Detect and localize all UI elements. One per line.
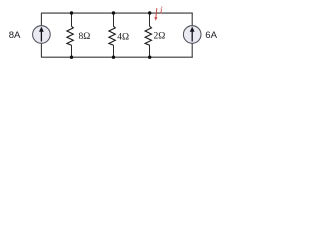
svg-text:8A: 8A (9, 30, 21, 41)
svg-text:4Ω: 4Ω (117, 32, 129, 42)
svg-text:i: i (160, 6, 163, 17)
wire top (41, 12, 193, 14)
svg-text:6A: 6A (205, 30, 217, 41)
resistor 4ohm (109, 13, 115, 57)
resistor 2ohm (145, 13, 151, 57)
svg-text:2Ω: 2Ω (154, 32, 166, 42)
junction bottom 4ohm (112, 56, 115, 59)
junction bottom 8ohm (70, 56, 73, 59)
wire left branch (40, 13, 42, 57)
resistor 8ohm (67, 13, 73, 57)
junction bottom 2ohm (148, 56, 151, 59)
junction top 8ohm (70, 11, 73, 14)
junction top 4ohm (112, 11, 115, 14)
current source 8A (33, 26, 51, 44)
current source 6A (183, 26, 201, 44)
current arrow i (154, 8, 157, 21)
svg-text:8Ω: 8Ω (79, 32, 91, 42)
wire bottom (41, 56, 193, 58)
junction top 2ohm (148, 11, 151, 14)
wire right branch (191, 13, 193, 57)
